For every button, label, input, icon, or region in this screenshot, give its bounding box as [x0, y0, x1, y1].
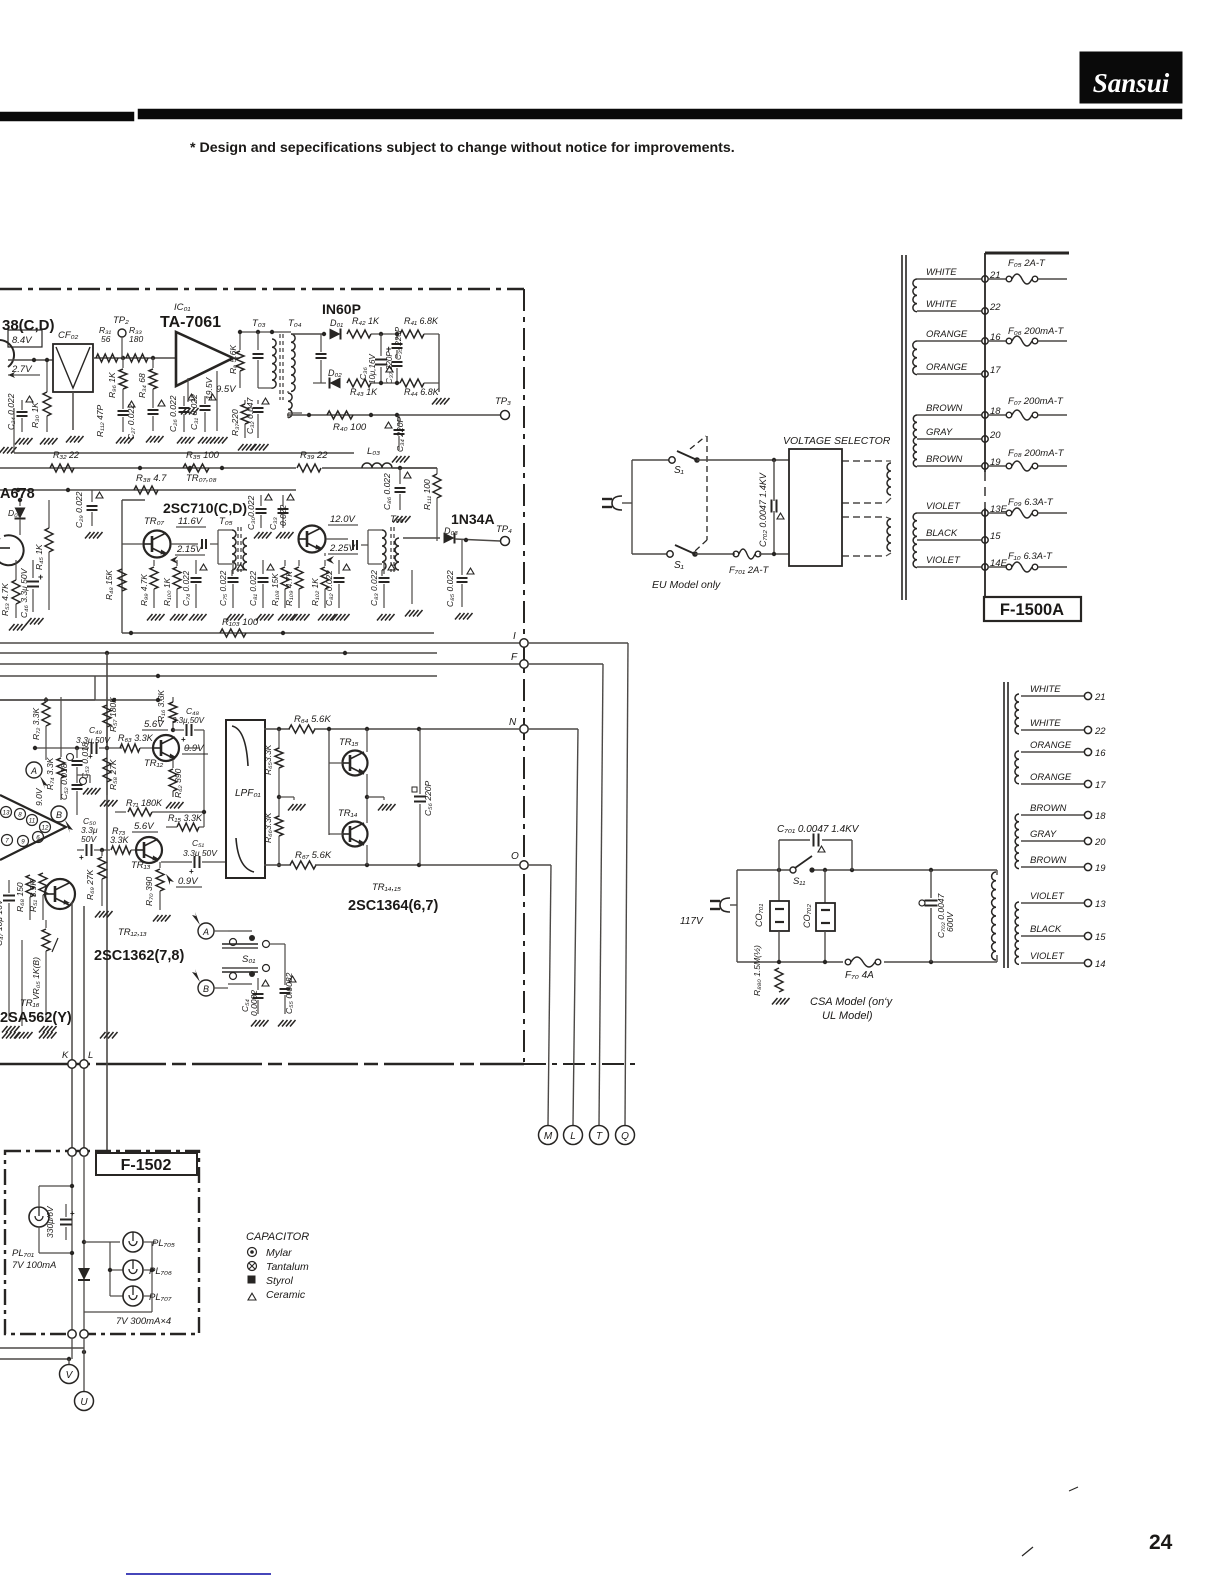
resistor R35 100 — [183, 450, 220, 472]
label 38(C,D) — [2, 317, 55, 334]
label A678 — [0, 486, 35, 502]
capacitor C53 0.018 — [67, 742, 91, 783]
capacitor C701 — [777, 824, 860, 870]
resistor R32 22 — [50, 450, 79, 472]
EU terminal bus — [985, 253, 1069, 597]
svg-text:180: 180 — [129, 334, 143, 344]
resistor R41 6.8K — [392, 316, 439, 338]
svg-text:19.5V: 19.5V — [204, 376, 214, 400]
voltage 19.5V — [204, 371, 228, 444]
svg-text:11.6V: 11.6V — [178, 516, 204, 527]
svg-text:C₅₃ 0.018: C₅₃ 0.018 — [80, 742, 90, 779]
svg-text:C₈₅ 0.022: C₈₅ 0.022 — [445, 570, 455, 607]
CSA secondary lead BROWN 18 — [1021, 803, 1106, 822]
label TR12 13 2SC1362 — [94, 927, 184, 964]
resistor R99 4.7K — [139, 560, 165, 621]
terminal T — [590, 1126, 609, 1145]
svg-text:C₃₀0.022: C₃₀0.022 — [246, 495, 256, 530]
header rule left segment — [0, 112, 134, 121]
resistor R16 3.3K — [156, 690, 177, 733]
svg-text:Sansui: Sansui — [1093, 68, 1170, 98]
svg-text:CAPACITOR: CAPACITOR — [246, 1231, 309, 1243]
voltage 9.5V — [216, 384, 237, 395]
svg-text:S₁: S₁ — [674, 465, 684, 476]
bus wire F — [0, 663, 524, 665]
resistor R70 390 — [144, 862, 171, 922]
capacitor C54 0.0082 — [240, 978, 269, 1027]
svg-text:VOLTAGE SELECTOR: VOLTAGE SELECTOR — [783, 435, 891, 447]
capacitor C mid — [253, 332, 264, 388]
transistor TR16 — [45, 879, 75, 909]
svg-text:T₀₃: T₀₃ — [252, 318, 266, 329]
EU primary winding upper — [886, 461, 891, 503]
svg-text:3.3μ,50V: 3.3μ,50V — [172, 716, 205, 725]
supply rail y700 — [0, 698, 162, 702]
fuse F704 — [845, 957, 881, 981]
svg-text:VIOLET: VIOLET — [926, 555, 961, 566]
switch gang dashed link — [690, 436, 707, 551]
terminal Q — [616, 1126, 635, 1145]
svg-text:17: 17 — [1095, 780, 1106, 791]
EU model AC plug — [602, 496, 632, 510]
resistor VR05 1K(B) — [31, 920, 58, 1033]
lamp PL705 — [84, 1232, 175, 1252]
svg-text:D₀₁: D₀₁ — [330, 318, 343, 328]
svg-text:CF₀₂: CF₀₂ — [58, 330, 79, 341]
svg-text:R₆₆3.3K: R₆₆3.3K — [263, 812, 273, 843]
capacitor C702 CSA — [919, 870, 955, 962]
main block top dash-dot border — [0, 288, 524, 290]
resistor R58 27K — [100, 758, 118, 807]
svg-text:F₀₇ 200mA-T: F₀₇ 200mA-T — [1008, 396, 1064, 407]
wire T04 to D01 — [291, 332, 327, 383]
capacitor C36 10u16V — [358, 334, 393, 384]
svg-text:R₅₃ 4.7K: R₅₃ 4.7K — [0, 583, 10, 616]
CSA secondary lead BLACK 15 — [1021, 924, 1106, 943]
svg-text:C₃₇ 220P: C₃₇ 220P — [385, 351, 394, 384]
transistor TR14 — [329, 797, 368, 865]
capacitor C56 220P — [412, 729, 433, 865]
ground row under opamp — [181, 408, 269, 451]
svg-text:10μ,16V: 10μ,16V — [368, 354, 377, 384]
svg-text:C₅₅ 0.0082: C₅₅ 0.0082 — [284, 972, 294, 1014]
capacitor C35 220P — [392, 326, 404, 360]
svg-text:PL₇₀₅: PL₇₀₅ — [152, 1238, 175, 1249]
svg-text:GRAY: GRAY — [926, 427, 953, 438]
svg-text:IC₀₁: IC₀₁ — [174, 302, 191, 313]
CSA transformer core — [1004, 682, 1008, 968]
connector CO702 — [802, 870, 835, 962]
resistor R38 4.7 — [134, 473, 217, 494]
capacitor C50 3.3u50V — [77, 816, 110, 862]
EU primary winding lower — [886, 517, 891, 556]
svg-text:Rₐ 5.6K: Rₐ 5.6K — [228, 345, 238, 374]
capacitor C48 3.3u50V — [172, 706, 205, 827]
svg-text:18: 18 — [1095, 811, 1106, 822]
EU secondary lead BROWN 19 — [917, 454, 1001, 469]
CSA secondary lead BROWN 19 — [1021, 855, 1106, 874]
bus wire 4 — [0, 674, 437, 678]
svg-text:R₃₄ 68: R₃₄ 68 — [137, 373, 147, 398]
svg-text:600V: 600V — [945, 911, 955, 932]
svg-text:C₈₁ 0.022: C₈₁ 0.022 — [248, 570, 258, 606]
resistor R71 180K — [115, 798, 206, 816]
EU secondary winding orange — [913, 341, 917, 375]
node L — [80, 1050, 93, 1068]
svg-text:TR₁₄,₁₅: TR₁₄,₁₅ — [372, 882, 401, 893]
svg-text:R₄₅ 1K: R₄₅ 1K — [34, 544, 44, 570]
svg-text:C₅₂ 0.018: C₅₂ 0.018 — [59, 763, 69, 800]
svg-text:UL Model): UL Model) — [822, 1010, 873, 1022]
voltage callout 2.7V — [8, 364, 40, 378]
svg-text:19: 19 — [1095, 863, 1106, 874]
diode F1502 — [78, 1240, 90, 1280]
svg-text:50V: 50V — [81, 834, 97, 844]
ground T06 — [405, 570, 423, 617]
svg-text:22: 22 — [1094, 726, 1106, 737]
CSA secondary winding brown — [1015, 814, 1019, 869]
svg-text:R₁₀₂ 1K: R₁₀₂ 1K — [310, 578, 320, 606]
svg-text:S₀₁: S₀₁ — [242, 954, 255, 965]
svg-text:I: I — [513, 631, 516, 642]
svg-text:U: U — [80, 1397, 88, 1408]
svg-text:C₂₉ 0.022: C₂₉ 0.022 — [74, 491, 84, 528]
svg-text:C₃₆: C₃₆ — [358, 366, 368, 380]
fuse F&#8320;&#8326; — [989, 326, 1067, 346]
svg-text:8: 8 — [18, 812, 22, 819]
svg-text:BLACK: BLACK — [1030, 924, 1062, 935]
CSA secondary lead GRAY 20 — [1021, 829, 1106, 848]
svg-text:C₇₅ 0.022: C₇₅ 0.022 — [218, 570, 228, 606]
CSA left wire — [730, 870, 737, 962]
voltage callout 8.4V — [8, 330, 42, 347]
CSA secondary winding white — [1015, 694, 1019, 734]
transistor TR08 — [299, 526, 326, 553]
svg-text:TR₁₄: TR₁₄ — [338, 808, 358, 819]
transformer T05 — [171, 516, 247, 576]
rails K L vertical — [72, 902, 84, 1151]
resistor R74 3.3K — [45, 697, 65, 800]
svg-text:15: 15 — [990, 531, 1001, 542]
coil L03 — [362, 446, 437, 470]
node F — [511, 652, 603, 1125]
svg-text:Q: Q — [621, 1131, 629, 1142]
resistor R100 1K — [162, 560, 188, 621]
right column ground — [291, 334, 450, 405]
Sansui logo — [1080, 52, 1182, 103]
svg-text:C₃₄ 220P: C₃₄ 220P — [395, 417, 405, 452]
fuse F&#8320;&#8325; — [989, 258, 1067, 284]
svg-text:0.0082: 0.0082 — [249, 990, 259, 1016]
capacitor C85 0.022 out — [445, 540, 474, 620]
svg-text:7V 100mA: 7V 100mA — [12, 1260, 56, 1271]
svg-text:F-1500A: F-1500A — [1000, 601, 1064, 619]
svg-text:R₆₈ 150: R₆₈ 150 — [15, 882, 25, 912]
voltage 9.0V — [34, 787, 44, 806]
CSA secondary lead WHITE 21 — [1021, 684, 1106, 703]
svg-text:O: O — [511, 851, 519, 862]
ground left pair — [0, 447, 17, 454]
capacitor C34 220P — [385, 415, 410, 463]
capacitor C702 EU — [758, 460, 784, 554]
svg-text:R₆₄ 5.6K: R₆₄ 5.6K — [294, 714, 331, 725]
svg-text:WHITE: WHITE — [1030, 684, 1061, 695]
switch S01 lower — [222, 968, 258, 984]
blue rule — [126, 1573, 271, 1575]
svg-text:9: 9 — [21, 839, 25, 846]
svg-text:BROWN: BROWN — [1030, 803, 1067, 814]
terminal U — [75, 1392, 94, 1411]
test point TP2 — [113, 315, 129, 358]
capacitor C86 0.022 — [382, 468, 411, 523]
F-1502 label — [96, 1153, 197, 1175]
svg-text:ORANGE: ORANGE — [926, 362, 968, 373]
EU plug wires — [632, 460, 669, 554]
voltage 5.6V TR13 — [132, 821, 158, 832]
stray mark 2 — [1069, 1487, 1078, 1491]
svg-text:WHITE: WHITE — [926, 299, 957, 310]
svg-text:R₅₁ 3.9K: R₅₁ 3.9K — [28, 880, 38, 912]
wire bus y490 — [0, 488, 296, 492]
svg-text:PL₇₀₁: PL₇₀₁ — [12, 1248, 34, 1259]
svg-text:R₁₀₈ 15K: R₁₀₈ 15K — [270, 573, 280, 606]
voltage 2.15V — [170, 544, 205, 564]
resistor R62 390 — [166, 760, 184, 809]
page number 24 — [1149, 1531, 1173, 1554]
svg-text:C₄₉: C₄₉ — [89, 725, 103, 735]
svg-text:C₈₂ 0.022: C₈₂ 0.022 — [324, 570, 334, 606]
svg-text:TR₁₆: TR₁₆ — [20, 998, 40, 1009]
svg-text:GRAY: GRAY — [1030, 829, 1057, 840]
T04 secondary coil lower — [288, 391, 302, 418]
svg-text:2SC1362(7,8): 2SC1362(7,8) — [94, 948, 184, 964]
svg-text:CSA Model (on‘y: CSA Model (on‘y — [810, 996, 894, 1008]
svg-text:6: 6 — [36, 835, 40, 842]
svg-text:R₆₃ 3.3K: R₆₃ 3.3K — [118, 733, 154, 743]
svg-text:BROWN: BROWN — [1030, 855, 1067, 866]
svg-text:B: B — [56, 810, 62, 820]
label PL701 7V100mA — [12, 1248, 56, 1271]
CSA secondary lead VIOLET 13 — [1021, 891, 1106, 910]
switch S11 — [790, 856, 815, 887]
svg-text:TP₃: TP₃ — [495, 396, 511, 407]
svg-text:R₄₂ 1K: R₄₂ 1K — [352, 316, 380, 326]
resistor R33 180 — [126, 325, 148, 362]
EU transformer core — [902, 255, 906, 600]
svg-text:B: B — [203, 984, 209, 994]
svg-text:VR₀₅ 1K(B): VR₀₅ 1K(B) — [31, 957, 41, 1000]
diode D02 — [313, 368, 342, 389]
svg-text:R₁₀₉ 4.7K: R₁₀₉ 4.7K — [284, 571, 294, 606]
voltage selector box — [789, 449, 842, 566]
EU top wire — [697, 458, 789, 462]
svg-text:TP₂: TP₂ — [113, 315, 129, 326]
diode D01 — [330, 318, 344, 340]
long vertical rail x95 — [0, 676, 95, 700]
svg-text:C₄₇ 10μ 16V: C₄₇ 10μ 16V — [0, 898, 4, 946]
opamp sliver — [0, 795, 66, 860]
svg-text:F-1502: F-1502 — [121, 1157, 172, 1174]
label 7V300mA — [116, 1316, 171, 1327]
svg-text:VIOLET: VIOLET — [926, 501, 961, 512]
svg-text:LPF₀₁: LPF₀₁ — [235, 788, 261, 799]
voltage selector label — [783, 435, 891, 447]
EU secondary lead WHITE 21 — [917, 267, 1001, 282]
CSA secondary lead VIOLET 14 — [1021, 951, 1106, 970]
lamp PL707 — [110, 1286, 172, 1306]
connector CO701 — [754, 870, 789, 962]
CSA caption — [810, 996, 894, 1022]
transistor TR13 — [131, 837, 162, 871]
bottom dash-dot rail K L — [524, 1063, 640, 1065]
transistor TR07 — [144, 516, 171, 558]
svg-text:R₆₂ 390: R₆₂ 390 — [173, 768, 183, 798]
resistor R102 1K — [310, 553, 336, 621]
svg-text:F₀₅ 2A-T: F₀₅ 2A-T — [1008, 258, 1046, 269]
resistor R69 27K — [85, 850, 113, 918]
capacitor C75 0.022 — [218, 560, 244, 621]
svg-text:+: + — [38, 572, 43, 582]
svg-text:S₁: S₁ — [674, 560, 684, 571]
resistor R36 5.6K — [228, 330, 291, 388]
svg-text:F₀₈ 200mA-T: F₀₈ 200mA-T — [1008, 448, 1065, 459]
svg-text:TR₁₂: TR₁₂ — [144, 758, 164, 769]
svg-text:C₅₁: C₅₁ — [192, 838, 205, 848]
svg-text:14: 14 — [1095, 959, 1106, 970]
svg-text:0.9V: 0.9V — [178, 876, 199, 887]
capacitor C52 0.018 — [59, 763, 101, 815]
bus wire 2 — [0, 651, 437, 655]
resistor R51 3.9K — [28, 873, 47, 920]
resistor R880 — [752, 945, 790, 1005]
svg-text:R₁₅ 3.3K: R₁₅ 3.3K — [168, 813, 203, 823]
svg-text:56: 56 — [101, 334, 111, 344]
svg-text:R₁₁₂ 47P: R₁₁₂ 47P — [95, 404, 105, 437]
svg-text:7V 300mA×4: 7V 300mA×4 — [116, 1316, 171, 1327]
svg-text:BLACK: BLACK — [926, 528, 958, 539]
resistor R53 4.7K — [0, 560, 27, 631]
svg-text:C₂₆ 0.022: C₂₆ 0.022 — [168, 395, 178, 432]
svg-text:C₈₃ 0.022: C₈₃ 0.022 — [369, 570, 379, 606]
capacitor C29 0.022 — [74, 490, 103, 539]
svg-text:R₆₉ 27K: R₆₉ 27K — [85, 869, 95, 900]
CSA top wire — [737, 868, 997, 875]
resistor R37 220 — [230, 400, 249, 438]
EU model caption — [652, 579, 721, 591]
long vertical rail x107 — [106, 653, 108, 1151]
svg-text:L: L — [88, 1050, 93, 1061]
svg-text:Tantalum: Tantalum — [266, 1261, 309, 1273]
svg-text:C₈₆ 0.022: C₈₆ 0.022 — [382, 473, 392, 510]
resistor R103 100 — [129, 617, 285, 637]
fuse F&#8320;&#8328; — [989, 448, 1067, 471]
svg-text:L₀₃: L₀₃ — [367, 446, 380, 457]
header rule right segment — [138, 109, 1182, 119]
svg-text:EU Model only: EU Model only — [652, 579, 721, 591]
svg-text:ORANGE: ORANGE — [1030, 772, 1072, 783]
capacitor C26 0.022 — [168, 394, 195, 443]
resistor R111 100 — [422, 468, 441, 541]
svg-text:C₄₈: C₄₈ — [186, 706, 200, 716]
resistor R48 15K — [104, 544, 143, 600]
first stage bottom rail — [14, 408, 354, 453]
svg-text:CO₇₀₁: CO₇₀₁ — [754, 904, 764, 927]
svg-text:R₇₁ 180K: R₇₁ 180K — [126, 798, 163, 808]
transformer T04 — [288, 318, 302, 391]
voltage 11.6V — [176, 516, 206, 527]
EU secondary winding violet-black — [913, 513, 917, 568]
svg-text:3.3μ 50V: 3.3μ 50V — [183, 848, 218, 858]
svg-text:22: 22 — [989, 302, 1001, 313]
svg-text:R₆₇ 5.6K: R₆₇ 5.6K — [295, 850, 332, 861]
capacitor C83 0.022 — [369, 560, 395, 621]
terminal V — [60, 1365, 79, 1384]
wire TR12 to LPF — [185, 722, 226, 748]
EU secondary winding brown-gray — [913, 415, 917, 467]
svg-text:TA-7061: TA-7061 — [160, 314, 221, 331]
svg-text:C₇₀₂ 0.0047 1.4KV: C₇₀₂ 0.0047 1.4KV — [758, 472, 768, 547]
svg-text:21: 21 — [1094, 692, 1106, 703]
voltage 2.25V — [326, 543, 358, 564]
lamp PL701 — [29, 1184, 74, 1255]
svg-text:K: K — [62, 1050, 69, 1061]
resistor R96 1K and cap 47P — [95, 358, 135, 444]
CSA secondary winding orange — [1015, 751, 1019, 784]
svg-text:330μ/6V: 330μ/6V — [45, 1205, 55, 1238]
switch S01 upper — [222, 931, 258, 948]
label 2SC710(C,D) — [163, 500, 247, 516]
svg-text:R₇₀ 390: R₇₀ 390 — [144, 876, 154, 906]
svg-text:TR₁₅: TR₁₅ — [339, 737, 359, 748]
coupling C30 0.022 — [246, 494, 272, 538]
ground row lower left — [2, 940, 118, 1039]
svg-text:C₄₆ 3.3μ 50V: C₄₆ 3.3μ 50V — [19, 567, 29, 618]
resistor R39 22 — [297, 450, 328, 472]
wire input row — [8, 358, 53, 362]
svg-text:0.022: 0.022 — [278, 504, 288, 526]
svg-text:F₀₆ 200mA-T: F₀₆ 200mA-T — [1008, 326, 1065, 337]
svg-text:+: + — [70, 1209, 75, 1218]
test point TP3 — [495, 396, 511, 420]
svg-text:8.4V: 8.4V — [12, 335, 33, 346]
svg-text:R₈₈₀ 1.5M(½): R₈₈₀ 1.5M(½) — [752, 945, 762, 996]
CSA secondary winding violet — [1015, 902, 1019, 964]
diode D04 — [8, 498, 26, 535]
svg-text:WHITE: WHITE — [1030, 718, 1061, 729]
svg-text:Mylar: Mylar — [266, 1247, 292, 1259]
CSA primary winding — [992, 872, 996, 960]
svg-text:C₂₇ 0.022: C₂₇ 0.022 — [126, 404, 136, 440]
svg-text:R₄₁ 6.8K: R₄₁ 6.8K — [404, 316, 439, 326]
svg-text:F₁₀ 6.3A-T: F₁₀ 6.3A-T — [1008, 551, 1053, 562]
svg-text:1N34A: 1N34A — [451, 511, 495, 527]
svg-text:7: 7 — [5, 838, 9, 845]
capacitor C51 3.3u50V — [161, 838, 226, 876]
lamp parallel rails — [84, 1242, 154, 1312]
node O — [511, 851, 551, 1125]
svg-text:C₃₂ 0.047: C₃₂ 0.047 — [245, 397, 255, 434]
capacitor C55 0.0082 — [278, 972, 296, 1026]
svg-text:BROWN: BROWN — [926, 403, 963, 414]
fuse F&#8320;&#8327; — [989, 396, 1067, 420]
svg-text:TP₄: TP₄ — [496, 524, 512, 535]
coupling C33 0.022 — [268, 494, 294, 538]
svg-text:11: 11 — [29, 818, 35, 825]
resistor R68 150 — [15, 875, 34, 920]
svg-text:9.5V: 9.5V — [216, 384, 237, 395]
resistor R67 5.6K — [264, 850, 520, 869]
EU secondary lead BLACK 15 — [917, 528, 1001, 543]
